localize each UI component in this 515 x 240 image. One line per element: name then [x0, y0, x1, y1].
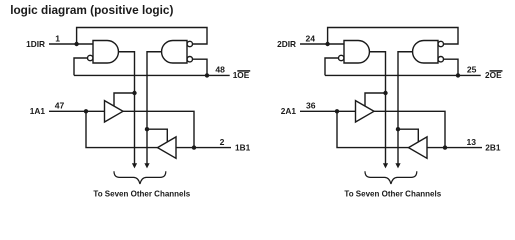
svg-text:1: 1: [55, 33, 60, 43]
svg-text:1DIR: 1DIR: [26, 39, 45, 49]
svg-text:2B1: 2B1: [485, 142, 501, 152]
svg-text:2DIR: 2DIR: [277, 39, 296, 49]
svg-text:36: 36: [306, 101, 316, 111]
svg-text:2A1: 2A1: [281, 106, 297, 116]
svg-text:1A1: 1A1: [30, 106, 46, 116]
svg-text:1B1: 1B1: [235, 142, 251, 152]
svg-text:48: 48: [215, 65, 225, 75]
svg-text:13: 13: [467, 137, 477, 147]
svg-text:47: 47: [55, 101, 65, 111]
svg-text:25: 25: [467, 65, 477, 75]
svg-text:2: 2: [220, 137, 225, 147]
svg-text:To Seven Other Channels: To Seven Other Channels: [93, 189, 190, 198]
svg-text:24: 24: [306, 33, 316, 43]
svg-text:logic diagram (positive logic): logic diagram (positive logic): [10, 3, 173, 17]
svg-text:To Seven Other Channels: To Seven Other Channels: [344, 189, 441, 198]
